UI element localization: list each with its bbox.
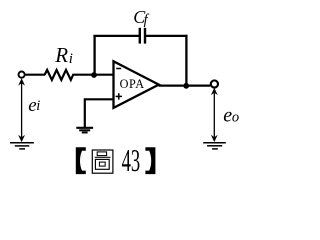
op-amp U1 triangle bbox=[114, 61, 159, 108]
caption bracket 【 bbox=[76, 147, 86, 174]
caption character 圖 bbox=[92, 150, 113, 173]
wire: top feedback horizontal (right of capacitor) bbox=[145, 35, 187, 37]
wire: top feedback horizontal (left of capacitor) bbox=[93, 35, 139, 37]
node: output junction dot bbox=[183, 83, 189, 89]
svg-text:o: o bbox=[232, 110, 239, 126]
wire: input terminal to resistor bbox=[25, 74, 45, 76]
svg-text:i: i bbox=[69, 51, 73, 67]
svg-text:OPA: OPA bbox=[120, 77, 145, 91]
ei measurement arrow (double headed) bbox=[21, 81, 23, 141]
output terminal (open circle) bbox=[211, 80, 218, 87]
caption bracket 】 bbox=[145, 147, 155, 174]
resistor Ri (zigzag) bbox=[45, 70, 78, 80]
wire: left feedback vertical bbox=[93, 36, 95, 75]
op-amp minus sign bbox=[116, 68, 121, 70]
op-amp plus sign bbox=[116, 95, 122, 97]
wire: resistor to op-amp inverting input bbox=[77, 74, 114, 76]
svg-text:e: e bbox=[223, 105, 232, 127]
input terminal (left, open circle) bbox=[19, 72, 25, 78]
capacitor Cf plates bbox=[139, 28, 141, 44]
wire: op-amp output to output terminal bbox=[159, 84, 211, 86]
svg-text:i: i bbox=[36, 98, 40, 114]
eo measurement arrow (double headed) bbox=[213, 90, 215, 140]
ground: output side bbox=[203, 142, 226, 144]
svg-text:R: R bbox=[54, 43, 68, 67]
wire: right feedback vertical down to output bbox=[185, 35, 187, 86]
ground: input side bbox=[10, 142, 34, 144]
ground: op-amp non-inverting input (solid bar style) bbox=[76, 127, 93, 129]
svg-text:43: 43 bbox=[122, 142, 141, 178]
wire: non-inverting input bbox=[85, 99, 115, 127]
node: inverting input junction dot bbox=[91, 72, 97, 78]
